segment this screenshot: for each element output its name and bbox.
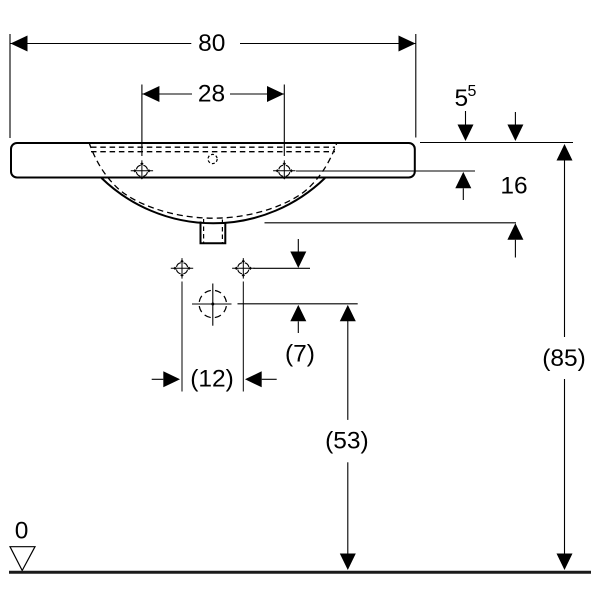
svg-text:(7): (7) [285, 341, 315, 368]
svg-text:5: 5 [467, 83, 476, 100]
svg-text:0: 0 [15, 518, 29, 545]
svg-text:(85): (85) [542, 345, 586, 372]
svg-text:28: 28 [198, 81, 225, 108]
svg-text:5: 5 [454, 85, 468, 112]
svg-text:(12): (12) [190, 366, 234, 393]
svg-text:80: 80 [198, 30, 225, 57]
svg-text:(53): (53) [325, 427, 369, 454]
svg-text:16: 16 [500, 172, 527, 199]
